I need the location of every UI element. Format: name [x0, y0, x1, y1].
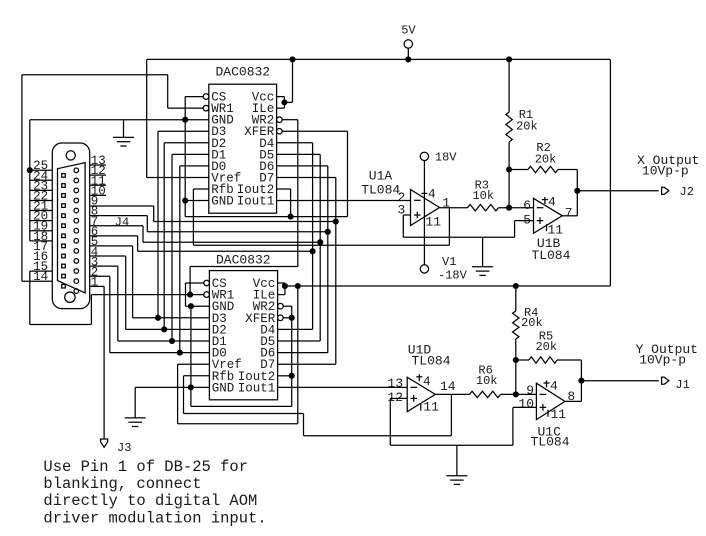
- resistor R1 body: [506, 112, 512, 142]
- junction pin 6 / D4 bus: [310, 248, 316, 254]
- wire D5 chip 1: [277, 153, 321, 155]
- note text about pin 1 blanking: [43, 458, 266, 528]
- wire R5 left lead: [516, 359, 529, 361]
- wire pin 7: [90, 225, 143, 227]
- wire R5 to U1C output: [580, 360, 582, 401]
- connector J4 D-sub face: [58, 163, 86, 293]
- svg-text:11: 11: [548, 223, 564, 238]
- DAC0832 chip 2 (Y) body: [209, 271, 277, 400]
- wire pin 5 vertical: [132, 246, 134, 318]
- svg-text:Iout1: Iout1: [238, 381, 276, 395]
- junction Iout2 chip 2: [289, 373, 295, 379]
- wire Vcc-ILe tie chip 2: [284, 283, 286, 295]
- op-amp U1D plus input mark: [410, 395, 417, 402]
- inverting bubble WR2 chip 1: [277, 117, 283, 123]
- wire CS chip 1: [185, 96, 203, 98]
- wire ground stem bottom: [456, 445, 458, 476]
- pin 11 stub: [90, 184, 106, 186]
- svg-text:11: 11: [423, 400, 439, 415]
- svg-text:DAC0832: DAC0832: [215, 65, 270, 80]
- wire D1 chip 1: [172, 153, 209, 155]
- connector J4 bottom mounting hole: [65, 292, 75, 302]
- wire D0 bus vertical: [179, 166, 181, 353]
- wire pin 15: [30, 270, 53, 272]
- supply tick pin 4 U1A: [421, 192, 427, 194]
- op-amp U1D triangle: [407, 377, 435, 411]
- wire U1B output: [562, 215, 577, 217]
- wire 5V feed to R4: [515, 286, 517, 311]
- wire U1A output to R3: [440, 207, 468, 209]
- junction 5V terminal on rail: [405, 56, 411, 62]
- wire Vcc stub chip 1: [277, 96, 285, 98]
- wire Rfb chip 2 vertical: [183, 376, 185, 414]
- wire U1D plus input down: [389, 398, 391, 445]
- pin 24 wire to ground bus: [30, 179, 53, 181]
- pin 10 stub: [90, 194, 106, 196]
- op-amp U1A plus input mark: [414, 212, 421, 219]
- junction ground bus / pin 25: [27, 167, 33, 173]
- junction CS/GND chip 1: [182, 117, 188, 123]
- svg-text:TL084: TL084: [530, 434, 569, 449]
- wire R3 to U1B inverting input: [499, 207, 534, 209]
- junction pin 8 / D6 bus: [325, 229, 331, 235]
- svg-text:11: 11: [425, 214, 441, 229]
- svg-text:4: 4: [548, 195, 556, 210]
- svg-text:directly to digital AOM: directly to digital AOM: [43, 492, 257, 510]
- wire D2 chip 2: [126, 328, 210, 330]
- wire GND chip 1 to DB-25 ground bus: [30, 119, 209, 121]
- svg-text:10k: 10k: [476, 374, 498, 388]
- supply stub pin 4 U1B: [542, 197, 548, 204]
- wire D7 chip 1: [277, 176, 336, 178]
- wire analog ground line X: [403, 236, 514, 238]
- wire D6 bus vertical: [327, 166, 329, 353]
- wire D0 chip 2: [110, 352, 210, 354]
- wire WR-X down to WR1 chip 1: [167, 75, 169, 108]
- wire feedback to Rfb chip 1: [193, 244, 449, 246]
- inverting bubble CS chip 1: [203, 94, 209, 100]
- wire ILe stub chip 2: [278, 294, 285, 296]
- wire pin 5: [90, 245, 133, 247]
- pin 23 wire to ground bus: [30, 189, 53, 191]
- wire ground symbol stem: [123, 120, 125, 138]
- wire Y output line: [581, 380, 658, 382]
- wire R6 to U1C inverting input: [501, 393, 537, 395]
- wire Vref chip 2 down: [177, 364, 179, 424]
- wire U1D output to R6: [435, 393, 469, 395]
- wire XFER chip 1 down to ground link: [347, 131, 349, 216]
- pin 25 wire to ground bus: [30, 169, 53, 171]
- wire GND top chip 2: [186, 305, 210, 307]
- wire U1A plus input down: [402, 215, 404, 237]
- svg-text:Iout1: Iout1: [237, 195, 275, 209]
- wire U1A feedback down: [448, 208, 450, 246]
- junction R4 riser on 5V feed: [513, 283, 519, 289]
- junction X output node: [574, 188, 580, 194]
- wire U1B plus input to ground line: [514, 221, 516, 238]
- junction GND bottom chip 1: [182, 198, 188, 204]
- wire Vref chip 2 run right: [178, 423, 298, 425]
- svg-text:14: 14: [440, 379, 456, 394]
- wire U1C plus input to ground line: [512, 407, 514, 445]
- connector J4 top mounting hole: [66, 151, 75, 160]
- svg-text:GND: GND: [212, 381, 235, 395]
- wire U1C plus input stub: [513, 406, 537, 408]
- wire U1D feedback down: [450, 394, 452, 435]
- wire GND bottom chip 1: [185, 200, 209, 202]
- junction D3 bus chip 2: [155, 315, 161, 321]
- wire Iout2 chip 1 down: [290, 189, 292, 217]
- wire pin 1 down to J3: [103, 286, 105, 439]
- junction XFER chip 2: [289, 315, 295, 321]
- connector J1 terminal: [662, 377, 669, 384]
- wire U1C output: [565, 400, 582, 402]
- inverting bubble XFER chip 1: [277, 128, 283, 134]
- wire GND tie vertical chip 2: [190, 306, 192, 406]
- supply stub pin 11 U1C: [547, 410, 549, 417]
- wire WR1 chip 2 from DB-25 pin 15: [91, 294, 203, 296]
- wire ground symbol stem: [134, 387, 136, 418]
- junction GND top chip 2: [188, 303, 194, 309]
- wire down to WR1 chip 2 row: [189, 267, 191, 295]
- wire CS chip 1 down to GND rail: [184, 97, 186, 120]
- junction 5V riser on rail: [289, 56, 295, 62]
- wire D6 chip 2: [278, 352, 328, 354]
- wire Rfb chip 2: [184, 375, 210, 377]
- connector J4 DB-25 shell: [52, 143, 89, 309]
- svg-text:J2: J2: [680, 185, 694, 199]
- wire pin 1: [90, 285, 104, 287]
- resistor R5 body: [529, 357, 557, 363]
- ground symbol below DB-25: [125, 418, 146, 427]
- wire R2 left lead: [509, 169, 528, 171]
- inverting bubble CS chip 2: [204, 280, 210, 286]
- resistor R4 body: [513, 311, 519, 339]
- wire 5V rail to R1: [508, 59, 510, 112]
- wire ILe stub chip 1: [277, 107, 285, 109]
- op-amp U1C plus input mark: [540, 404, 547, 411]
- op-amp U1B minus input mark: [537, 207, 544, 209]
- DB-25 ground bus vertical (pins 18-25): [29, 120, 31, 241]
- wire WR2/XFER/Iout2 chip 2 vertical: [291, 306, 293, 406]
- junction Y output node: [578, 378, 584, 384]
- wire Vref chip 2: [178, 363, 210, 365]
- wire Iout2 chip 2: [278, 375, 292, 377]
- wire ground link below chip 2: [191, 405, 292, 407]
- wire pin 15 vertical at left: [29, 271, 31, 324]
- wire +18V to -18V supply line through U1A: [423, 161, 425, 265]
- junction R4/R5: [513, 357, 519, 363]
- wire pin 4: [90, 255, 126, 257]
- supply stub pin 11 U1D: [420, 404, 422, 411]
- wire R4 to summing node: [515, 339, 517, 394]
- wire WR2 chip 1 vertical: [297, 120, 299, 267]
- DAC0832 chip 2 left pin names: [212, 277, 242, 395]
- inverting bubble WR1 chip 1: [203, 105, 209, 111]
- svg-text:J4: J4: [115, 216, 129, 230]
- junction R1 riser on 5V rail: [506, 56, 512, 62]
- connector J2 terminal: [662, 187, 669, 194]
- junction R1/R3/U1B input node: [506, 205, 512, 211]
- wire U1A plus input stub: [403, 214, 410, 216]
- wire D6 chip 1: [277, 165, 328, 167]
- wire D5 bus vertical: [319, 154, 321, 341]
- wire GND tie vertical chip 1: [184, 120, 186, 217]
- inverting bubble XFER chip 2: [278, 315, 284, 321]
- op-amp U1B triangle: [534, 198, 563, 233]
- svg-text:20k: 20k: [516, 119, 538, 133]
- op-amp U1C triangle: [536, 383, 565, 419]
- junction pin 9 / D7 bus: [333, 218, 339, 224]
- wire pin 15 riser right of DB-25: [90, 295, 92, 325]
- svg-text:4: 4: [428, 186, 436, 201]
- svg-text:10Vp-p: 10Vp-p: [642, 164, 689, 179]
- wire Iout1 chip 2 to U1D inverting input: [278, 386, 408, 388]
- pin 13 stub: [90, 164, 106, 166]
- wire XFER chip 2: [283, 317, 292, 319]
- wire WR2 chip 1: [282, 119, 298, 121]
- wire R2 to U1B output: [576, 170, 578, 216]
- wire Rfb chip 1 vertical: [192, 189, 194, 245]
- svg-text:10: 10: [518, 396, 534, 411]
- wire 5V rail down to Vref chip1: [146, 59, 148, 177]
- wire pin 4 vertical: [125, 256, 127, 329]
- wire D7 bus vertical: [335, 177, 337, 364]
- wire Vcc node to riser chip 1: [284, 101, 292, 103]
- wire D4 chip 2: [278, 328, 313, 330]
- junction Iout2 chip 1 on ground link: [288, 214, 294, 220]
- junction D2 bus chip 2: [161, 326, 167, 332]
- wire pin 14: [22, 280, 52, 282]
- ground symbol near R3: [472, 267, 493, 276]
- svg-text:11: 11: [551, 407, 567, 422]
- wire pin 9: [90, 205, 154, 207]
- connector J4 pin holes left column (pins 14-25): [62, 174, 66, 288]
- svg-text:TL084: TL084: [361, 182, 400, 197]
- svg-text:TL084: TL084: [531, 248, 570, 263]
- wire D7 chip 2: [278, 363, 336, 365]
- V1 -18V power terminal: [420, 265, 428, 273]
- svg-text:18V: 18V: [435, 151, 457, 165]
- DAC0832 chip 1 left pin names: [211, 91, 241, 209]
- wire 5V feed to Vcc chip 2: [285, 285, 611, 287]
- svg-text:DAC0832: DAC0832: [216, 253, 271, 268]
- wire WR2 chip1 to WR1 chip2 horizontal: [190, 266, 298, 268]
- svg-text:13: 13: [387, 376, 403, 391]
- wire U1D plus input stub: [390, 397, 407, 399]
- svg-text:driver modulation input.: driver modulation input.: [43, 509, 266, 527]
- op-amp U1B plus input mark: [537, 217, 544, 224]
- junction GND bottom chip 2: [188, 384, 194, 390]
- wire pin 9 to D7 bus: [154, 221, 336, 223]
- junction D1 bus chip 2: [169, 338, 175, 344]
- svg-text:6: 6: [523, 198, 531, 213]
- wire R1 to summing node: [508, 142, 510, 208]
- wire pin 8: [90, 215, 148, 217]
- +18V power terminal: [420, 152, 428, 160]
- junction R1/R2: [506, 166, 512, 172]
- svg-text:5V: 5V: [401, 23, 416, 37]
- pin 21 wire to ground bus: [30, 210, 53, 212]
- pin 19 wire to ground bus: [30, 230, 53, 232]
- wire Vref chip 1: [147, 176, 209, 178]
- wire feedback jog vertical: [303, 414, 305, 436]
- wire pin 3 vertical: [117, 266, 119, 341]
- wire ground link below chip 1: [185, 216, 347, 218]
- wire D4 chip 1: [277, 142, 313, 144]
- wire WR-X from pin 14 horizontal: [22, 74, 168, 76]
- wire D3 chip 2: [133, 317, 210, 319]
- svg-text:1: 1: [91, 276, 99, 290]
- wire feedback run to Rfb chip 2: [304, 435, 452, 437]
- wire R2 right lead: [558, 169, 577, 171]
- wire pin 3: [90, 265, 118, 267]
- wire CS chip 2: [186, 282, 204, 284]
- svg-text:20k: 20k: [521, 316, 543, 330]
- wire pin 7 step down: [142, 226, 144, 242]
- wire GND bottom chip 2: [135, 386, 209, 388]
- wire pin 2 vertical: [109, 276, 111, 352]
- svg-text:J3: J3: [117, 441, 131, 455]
- wire analog ground line Y: [390, 444, 513, 446]
- wire R5 right lead: [557, 359, 581, 361]
- pin 18 wire to ground bus: [30, 240, 53, 242]
- svg-text:-18V: -18V: [438, 269, 468, 283]
- wire WR2 chip 2: [283, 305, 292, 307]
- wire Iout2 chip 1: [277, 188, 291, 190]
- wire D3 bus vertical: [157, 131, 159, 318]
- junction R4/R6/U1C input node: [513, 391, 519, 397]
- wire 5V rail right vertical: [609, 59, 611, 286]
- pin 20 wire to ground bus: [30, 220, 53, 222]
- junction on WR1 chip 2 line: [187, 292, 193, 298]
- op-amp U1C minus input mark: [540, 393, 547, 395]
- wire Rfb chip 1: [193, 188, 208, 190]
- wire Iout1 chip 1 to U1A inverting input: [277, 200, 411, 202]
- wire pin 9 step down: [153, 206, 155, 222]
- wire pin 6: [90, 235, 138, 237]
- junction D0 bus chip 2: [177, 350, 183, 356]
- supply stub pin 4 U1D: [416, 374, 422, 381]
- svg-text:10Vp-p: 10Vp-p: [639, 352, 686, 367]
- svg-text:20k: 20k: [535, 152, 557, 166]
- svg-text:14: 14: [33, 270, 48, 284]
- ground symbol bottom: [446, 476, 467, 485]
- DAC0832 chip 1 right pin names: [237, 91, 275, 209]
- op-amp U1A minus input mark: [414, 199, 421, 201]
- svg-text:TL084: TL084: [411, 354, 450, 369]
- svg-text:V1: V1: [442, 255, 456, 269]
- connector J4 pin holes right column (pins 1-13): [74, 168, 79, 293]
- wire Vcc stub chip 2: [278, 282, 285, 284]
- supply stub pin 11 U1B: [546, 224, 548, 231]
- wire feedback run left: [184, 413, 304, 415]
- wire D1 chip 2: [118, 340, 210, 342]
- svg-text:20k: 20k: [535, 340, 557, 354]
- op-amp U1D minus input mark: [410, 386, 417, 388]
- wire D2 chip 1: [164, 142, 209, 144]
- wire X output line: [577, 190, 659, 192]
- junction Vref2 riser on 5V feed: [295, 283, 301, 289]
- wire XFER chip 1: [282, 130, 347, 132]
- svg-text:blanking, connect: blanking, connect: [43, 475, 201, 493]
- DAC0832 chip 2 right pin names: [238, 277, 276, 395]
- wire 5V riser chip 1: [292, 59, 294, 102]
- DAC0832 chip 1 (X) body: [209, 84, 277, 213]
- svg-text:Use Pin 1 of DB-25 for: Use Pin 1 of DB-25 for: [43, 458, 248, 476]
- connector J3 terminal: [101, 439, 108, 447]
- ground symbol near DB-25: [113, 137, 134, 146]
- wire D5 chip 2: [278, 340, 321, 342]
- svg-text:10k: 10k: [472, 189, 494, 203]
- wire 5V terminal stub: [407, 48, 409, 59]
- wire pin 6 to D4 bus: [138, 250, 313, 252]
- junction Vcc/ILe chip 2 on 5V feed: [282, 283, 288, 289]
- pin 22 wire to ground bus: [30, 200, 53, 202]
- wire WR-X vertical at far left: [21, 75, 23, 281]
- svg-text:GND: GND: [211, 195, 234, 209]
- 5V power terminal: [404, 40, 412, 48]
- wire D1 bus vertical: [171, 154, 173, 341]
- resistor R3 body: [468, 205, 499, 211]
- wire pin 8 step down: [146, 216, 148, 232]
- wire Vref chip 2 riser to 5V feed: [297, 286, 299, 424]
- svg-text:J1: J1: [675, 378, 689, 392]
- wire pin 2: [90, 275, 110, 277]
- wire CS chip 2 down to GND: [185, 283, 187, 306]
- supply stub pin 4 U1C: [544, 380, 550, 387]
- wire pin 8 to D6 bus: [147, 231, 327, 233]
- svg-text:4: 4: [550, 379, 558, 394]
- junction Vcc/ILe chip 1: [281, 99, 287, 105]
- wire into WR1 bubble chip 1: [168, 107, 204, 109]
- wire D2 bus vertical: [163, 143, 165, 330]
- inverting bubble WR2 chip 2: [278, 303, 284, 309]
- wire D4 bus vertical: [312, 143, 314, 330]
- resistor R2 body: [528, 166, 558, 172]
- op-amp U1A triangle: [411, 190, 440, 226]
- junction pin 7 / D5 bus: [317, 239, 323, 245]
- wire pin 7 to D5 bus: [143, 241, 320, 243]
- wire D0 chip 1: [180, 165, 209, 167]
- wire 5V rail horizontal: [147, 58, 611, 60]
- svg-text:4: 4: [423, 374, 431, 389]
- inverting bubble WR1 chip 2: [204, 292, 210, 298]
- resistor R6 body: [470, 391, 501, 397]
- wire pin 15 run under DB-25: [30, 324, 92, 326]
- svg-text:7: 7: [565, 205, 573, 220]
- wire Vcc-ILe tie chip 1: [283, 97, 285, 109]
- pin 12 stub: [90, 174, 106, 176]
- wire pin 6 step down: [137, 236, 139, 251]
- wire ground stem near R3: [482, 237, 484, 267]
- wire U1B plus input stub: [515, 220, 534, 222]
- wire D3 chip 1: [158, 130, 209, 132]
